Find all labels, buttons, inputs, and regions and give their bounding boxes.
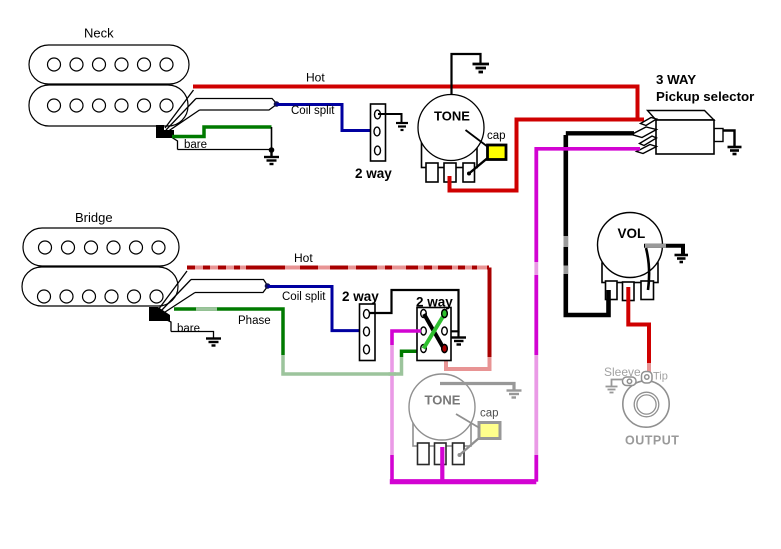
ground (neck bare) [264,150,279,164]
svg-text:Tip: Tip [653,371,668,383]
wire VOL middle lug to output tip (red) [628,287,649,363]
wire magenta into S3 middle-left lug [392,331,421,345]
output sleeve tab [623,377,637,386]
bridge cable tape blob [149,307,170,321]
svg-text:Phase: Phase [238,315,271,327]
node neck ground junction [269,147,275,153]
svg-text:Hot: Hot [294,251,313,265]
lugs VOL [606,281,654,301]
wire neck green to ground [172,127,272,137]
svg-text:Bridge: Bridge [75,210,113,225]
junction: magenta crosses over black riser [562,147,570,151]
bridge white coil wires bracket [191,280,268,293]
svg-text:2 way: 2 way [416,295,453,310]
wire TONE1 middle lug to selector (red) [450,120,645,191]
lugs TONE 2 [418,443,465,465]
wire VOL casing to ground (black with watermark patch) [644,246,683,254]
wire S2 top lug to phase switch middle-right lug (black) [369,290,459,331]
wire magenta vertical bottom (bright) [390,455,394,480]
selector pin 2 [632,127,657,138]
potentiometer TONE 2 can (washed) [409,374,475,440]
capacitor C2 (cap, washed) [479,423,500,439]
selector SW1 body [656,120,714,154]
wire VOL lug3 to casing ground (black diagonal) [646,248,649,290]
svg-text:Hot: Hot [306,71,325,85]
svg-text:Pickup selector: Pickup selector [656,89,754,104]
S3 crossover black diagonal [424,314,444,349]
pickup Neck (humbucker) [29,45,189,126]
junction: phase wire crosses over magenta [389,372,397,376]
wire magenta right vertical to selector pin4 [534,455,538,482]
wire TONE2 middle lug to magenta bus [440,447,444,481]
node neck coil-split junction [274,101,280,107]
ground (selector) [728,147,742,154]
neck cable tape blob [156,125,174,138]
selector SW1 right tab [714,129,723,142]
wire S1 top lug to ground [378,114,402,123]
svg-text:Sleeve: Sleeve [604,365,641,379]
wire selector pin2 to VOL (black, horizontal) [566,131,634,135]
svg-text:VOL: VOL [618,226,646,241]
wire pot to cap pointer (gray) [456,414,480,428]
selector pin 3 [640,136,657,146]
wire magenta bottom horizontal [390,479,537,484]
output jack (washed gray) [623,381,669,427]
svg-text:3 WAY: 3 WAY [656,72,696,87]
bridge lead fan wires [158,271,195,332]
svg-text:OUTPUT: OUTPUT [625,434,679,448]
ground (VOL) [675,255,689,262]
watermark patch on phase wire [196,307,217,311]
potentiometer TONE 1 body [422,142,478,168]
svg-text:bare: bare [184,139,207,151]
wire bridge hot pale loop to phase switch [446,353,490,370]
svg-text:2 way: 2 way [355,166,392,181]
neck lead fan wires [165,90,200,150]
switch S2 coil-split bridge (2 way) [360,304,376,361]
ground (phase switch) [457,331,459,336]
ground (sleeve, gray) [606,387,618,393]
svg-text:Neck: Neck [84,26,114,41]
potentiometer TONE 1 can [418,95,484,161]
node bridge coil-split junction [265,283,271,289]
svg-text:Coil split: Coil split [291,105,335,117]
S3 crossover green diagonal [424,314,445,349]
wire neck coil split (blue) [277,105,375,131]
svg-text:TONE: TONE [434,109,470,124]
wire bridge hot (red, watermark dashed) [187,266,489,270]
svg-text:Coil split: Coil split [282,291,326,303]
lugs TONE 1 [426,163,475,182]
wire cap to lug pointer (gray) [460,439,479,456]
ground (S1) [396,123,408,130]
ground (bridge bare) [206,339,221,346]
wire selector pin4 (magenta, horizontal) [537,147,640,151]
svg-text:bare: bare [177,323,200,335]
wire neck green/bare drop to ground [271,127,273,150]
wire pot to cap pointer [466,130,489,147]
ground (TONE 1) [473,64,490,72]
watermark patches on thick black wire [563,236,568,247]
switch S3 phase (2 way) [417,308,451,361]
pickup Bridge (humbucker) [22,228,179,306]
node S3 top-right lug (green filled) [442,310,448,318]
potentiometer VOL body [602,263,658,283]
selector pin 1 [641,118,657,126]
neck white coil wires bracket [196,99,277,111]
ground (TONE 2, gray) [507,391,522,398]
wire TONE 2 casing to ground (gray) [440,384,514,390]
wire bridge phase (green dark) [174,309,283,355]
switch S1 coil-split neck (2 way) [371,104,386,161]
svg-text:cap: cap [480,408,499,420]
potentiometer TONE 2 body (washed) [413,423,471,446]
wire neck hot (red) [193,87,638,120]
wire bridge phase (washed light green) [283,355,402,374]
wire bridge phase to switch lug (green dark) [402,351,423,357]
output tip tab [642,372,653,384]
wire TONE 1 casing to ground (black) [452,54,481,95]
wire selector to VOL lug1 (thick black) [566,135,609,315]
S3 lugs [421,310,448,353]
wire selector tab to ground [723,131,735,147]
svg-text:TONE: TONE [425,393,461,408]
wire neck bare (thin) [178,149,272,151]
wire bridge coil split (blue) [268,287,365,331]
potentiometer VOL can [598,213,663,278]
selector SW1 top face [648,111,715,121]
svg-text:cap: cap [487,130,506,142]
capacitor C1 (cap) [488,145,507,160]
wire sleeve to ground (gray) [612,380,624,387]
selector pin 4 [637,145,657,154]
wire magenta vertical (washed) [390,345,394,455]
wire cap to lug3 pointer [469,159,487,174]
svg-text:2 way: 2 way [342,289,379,304]
node S3 bottom-right lug (red filled) [442,345,448,353]
wire bridge bare (thin) [171,332,214,338]
